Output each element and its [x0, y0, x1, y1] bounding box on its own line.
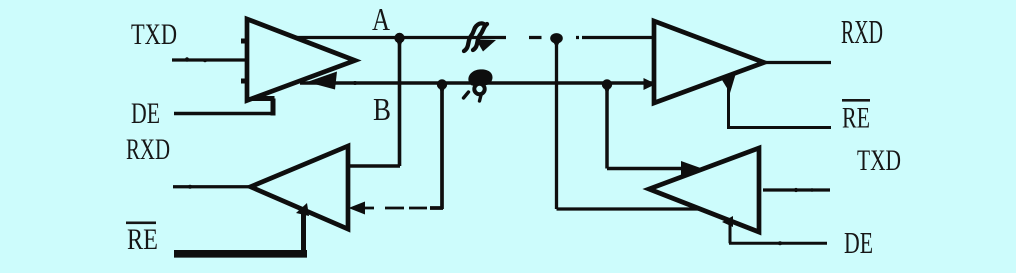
pin nub on U1 left edge (upper)	[241, 39, 246, 44]
arrowhead into U2 lower input	[349, 202, 366, 215]
scan speck on DE-R wire	[778, 241, 782, 245]
driver U4 (right transmitter triangle)	[649, 148, 759, 232]
wire line A (top differential line)	[294, 36, 652, 39]
svg-text:TXD: TXD	[857, 144, 901, 177]
scan speck on TXD wire 2	[203, 59, 207, 63]
overline for RE left	[126, 222, 156, 225]
small hook at top of DE vertical (U4 enable)	[722, 216, 733, 227]
pin nub on U1 left edge (lower)	[241, 79, 246, 84]
svg-text:TXD: TXD	[131, 18, 177, 51]
break mark (cable break squiggle) on line A	[464, 23, 485, 51]
svg-text:RXD: RXD	[841, 14, 883, 51]
wire RXD output right	[766, 61, 831, 64]
arrowhead on line B at U3 input	[644, 78, 657, 90]
wire TXD input left	[172, 58, 245, 61]
svg-text:DE: DE	[131, 97, 160, 130]
scan speck on TXD-R wire 2	[810, 188, 814, 192]
node B2 junction dot (line B to U4)	[602, 79, 612, 89]
wire RXD output left	[173, 185, 250, 188]
receiver U3 (right receiver triangle)	[654, 21, 764, 103]
scan speck on TXD wire	[185, 57, 189, 61]
arrowhead at top of RE vertical (U3 enable)	[722, 73, 736, 93]
wire line B (bottom differential line)	[300, 81, 652, 84]
node B junction dot (line B to U2)	[437, 79, 447, 89]
scan speck on RXD-L wire	[188, 185, 192, 189]
svg-text:RXD: RXD	[126, 133, 170, 166]
driver U1 (left transmitter triangle)	[247, 19, 355, 101]
receiver U2 (left receiver triangle)	[251, 146, 349, 229]
scan speck on line B left	[353, 81, 357, 85]
scan speck on TXD-R wire	[794, 188, 798, 192]
svg-text:RE: RE	[127, 223, 158, 256]
wire TXD input right	[763, 188, 830, 191]
svg-text:RE: RE	[842, 102, 870, 135]
svg-text:A: A	[372, 1, 390, 37]
wire vertical from node A2 down to U4 tip	[557, 37, 700, 209]
arrowhead into U4 upper input	[681, 161, 702, 176]
svg-text:DE: DE	[844, 225, 873, 260]
node A2 junction dot (middle of line A)	[550, 33, 563, 43]
break mark (cable break squiggle) on line B	[468, 69, 492, 85]
wire DE input right	[729, 220, 827, 243]
wire vertical from node A to U2 upper input	[348, 36, 400, 166]
arrowhead at top of RE vertical (U2 enable)	[296, 203, 309, 216]
node A junction dot	[394, 33, 404, 43]
wire vertical from line B to U2 lower input	[430, 83, 443, 209]
wire DE input left with vertical to U1	[174, 112, 273, 116]
wire RE enable left (thick)	[174, 250, 307, 258]
overline for RE right	[842, 99, 870, 102]
wire RE enable right	[727, 79, 831, 128]
wire vertical from node B2 down to U4 upper input	[607, 83, 686, 169]
svg-text:B: B	[373, 91, 391, 127]
arrowhead on line B at U1 output	[307, 72, 337, 90]
